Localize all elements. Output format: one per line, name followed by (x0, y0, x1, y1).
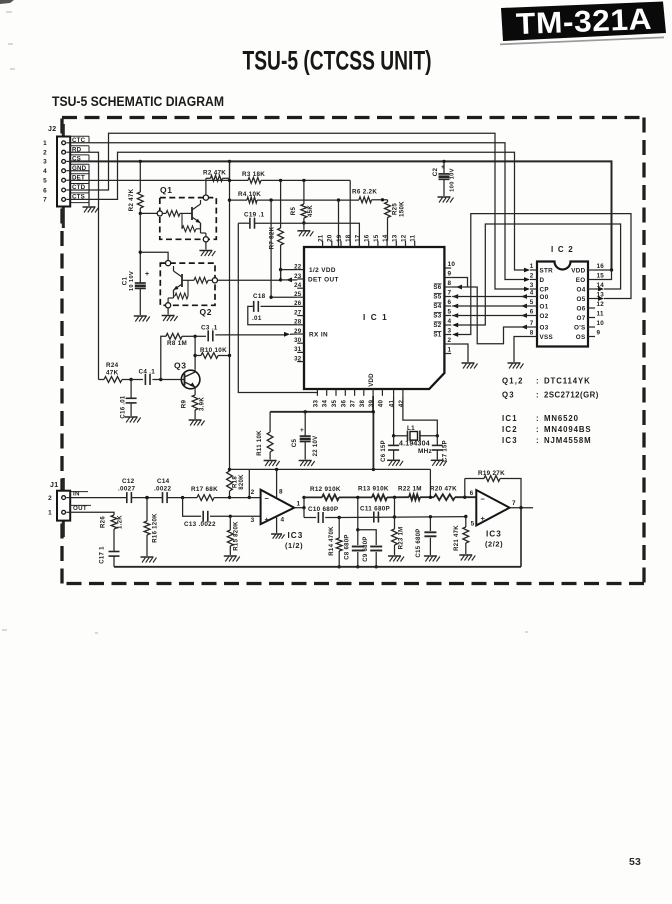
IC2 pin 13 O5 (588, 298, 595, 300)
bias rail (1/2 VDD) (230, 468, 431, 470)
IC1 pin 8 (444, 286, 451, 288)
svg-text:150K: 150K (399, 201, 406, 217)
svg-text:O3: O3 (540, 324, 549, 331)
IC1 pin 29 (297, 333, 304, 335)
svg-text:23: 23 (294, 273, 302, 280)
svg-text:21: 21 (318, 234, 325, 242)
wire IC2 O4 wrap to IC1 S2 (595, 288, 598, 290)
IC1 pin 39 (372, 389, 374, 396)
wire O0 to S5 (452, 294, 458, 299)
svg-text:2: 2 (530, 273, 534, 280)
junction +V/R2R3 riser (228, 160, 231, 163)
svg-text:VSS: VSS (540, 334, 554, 341)
Q2 emitter terminal (166, 303, 171, 308)
svg-text:DET OUT: DET OUT (308, 276, 339, 283)
ground at R21 (459, 554, 472, 556)
svg-text:1/2 VDD: 1/2 VDD (309, 267, 336, 274)
IC1 pin 31 (297, 351, 304, 353)
svg-text:7: 7 (512, 500, 516, 507)
op-amp IC3 (1/2) NJM4558M (261, 490, 295, 524)
svg-text:S5: S5 (433, 294, 441, 301)
IC1 pin 27 (297, 315, 304, 317)
wire R7 to IC1 pin22 (1/2 VDD) (279, 268, 282, 271)
Q2 input terminal (212, 278, 217, 283)
svg-text::: : (536, 377, 539, 386)
IC1 pin 24 (297, 287, 304, 289)
ground at Q2 (162, 315, 175, 317)
svg-text:TSU-5 (CTCSS UNIT): TSU-5 (CTCSS UNIT) (243, 46, 432, 76)
svg-text:RX IN: RX IN (309, 332, 328, 339)
ground at R5 (303, 223, 305, 230)
svg-text:STR: STR (540, 267, 554, 274)
IC1 pin 18 (349, 241, 351, 247)
svg-text:OUT: OUT (73, 505, 87, 512)
svg-text:(1/2): (1/2) (285, 541, 303, 550)
svg-text:R9: R9 (181, 399, 188, 408)
svg-text:C19 .1: C19 .1 (244, 212, 265, 219)
svg-text:VDD: VDD (369, 373, 375, 387)
svg-text:Q1,2: Q1,2 (502, 377, 524, 386)
svg-text:24: 24 (294, 282, 302, 289)
svg-text:EO: EO (576, 277, 586, 284)
svg-text:R2 47K: R2 47K (203, 170, 226, 177)
svg-text:5: 5 (448, 309, 452, 316)
svg-text:J2: J2 (48, 126, 56, 133)
IC1 pin 32 (297, 361, 304, 363)
wire node down to C1 / Q2 (139, 213, 141, 283)
svg-text:10: 10 (597, 320, 605, 327)
svg-text:15: 15 (597, 273, 605, 280)
svg-text:C8 680P: C8 680P (345, 534, 351, 559)
svg-text:C9 680P: C9 680P (363, 536, 369, 561)
Q2 internal shunt resistor (187, 280, 189, 296)
svg-text:J1: J1 (50, 482, 58, 489)
IC1 pin 37 (354, 389, 356, 396)
Q2 internal transistor (mirrored) (181, 274, 183, 287)
svg-text:R15 820K: R15 820K (234, 521, 240, 551)
svg-text:R21 47K: R21 47K (454, 525, 460, 551)
Q1 internal transistor (191, 207, 193, 220)
svg-text:MN4094BS: MN4094BS (544, 425, 592, 434)
svg-text::: : (536, 425, 539, 434)
svg-text:C1: C1 (122, 276, 129, 285)
junction +V/R2v (139, 160, 142, 163)
svg-text:47K: 47K (106, 370, 119, 377)
svg-text:100 10V: 100 10V (450, 168, 456, 192)
wire J1 OUT to R26 (71, 512, 115, 515)
wire bias riser R10 to rail (229, 356, 231, 470)
svg-text:−: − (265, 494, 270, 503)
svg-text:2: 2 (48, 495, 52, 502)
junction VDD net at IC2 (610, 268, 613, 271)
svg-text:8: 8 (448, 280, 452, 287)
svg-text:10: 10 (448, 261, 456, 268)
ground at C1 (134, 315, 147, 317)
wire IC2 pin15 EO tied to VDD (595, 270, 612, 280)
resistor R7 82K (279, 179, 282, 182)
wire riser to IC1 pin19 (338, 200, 340, 247)
svg-text:O0: O0 (540, 294, 549, 301)
model header box TM-321A (501, 2, 666, 42)
svg-text:12: 12 (597, 301, 605, 308)
svg-text:O'S: O'S (574, 324, 586, 331)
svg-text:1: 1 (297, 500, 301, 507)
svg-text:R16 120K: R16 120K (153, 513, 159, 543)
IC1 pin 2 (444, 343, 451, 345)
IC2 pin 1 STR (530, 269, 537, 271)
svg-text:R4 10K: R4 10K (238, 191, 261, 198)
IC1 pin 4 (444, 324, 451, 326)
svg-text:TM-321A: TM-321A (515, 3, 652, 41)
ground at C7 (431, 459, 444, 461)
wire mid row to IC3-2 +input (339, 516, 467, 519)
IC1 pin 16 (368, 241, 370, 247)
svg-text:R23 1M: R23 1M (399, 527, 405, 550)
svg-text:1.2K: 1.2K (118, 515, 124, 529)
svg-text:14: 14 (382, 234, 389, 242)
ground at IC1 pin2 (462, 362, 475, 364)
svg-text:C2: C2 (432, 167, 439, 176)
svg-text:6: 6 (43, 187, 47, 194)
svg-text:12: 12 (401, 234, 408, 242)
wire CTS net J2-7 to IC2 STR (71, 152, 525, 270)
ground at R15 (224, 555, 237, 557)
svg-text:R14 470K: R14 470K (329, 526, 335, 556)
svg-text:16: 16 (364, 234, 371, 242)
wire IC3-2 output (510, 507, 533, 509)
wire IC3-1 output node (294, 507, 304, 509)
svg-text:C14: C14 (157, 478, 170, 485)
IC2 pin 16 VDD (588, 269, 595, 271)
ground at C15 (424, 555, 437, 557)
IC1 pin 5 (444, 315, 451, 317)
IC1 pin 21 (322, 241, 324, 247)
wire IC1 pin42 to crystal right (403, 396, 437, 436)
svg-text:4.194304: 4.194304 (399, 441, 430, 448)
svg-text:45K: 45K (307, 205, 314, 217)
ground at R11 (264, 460, 277, 462)
svg-text:VDD: VDD (571, 267, 585, 274)
svg-text:C12: C12 (122, 478, 135, 485)
IC1 pin 25 (297, 296, 304, 298)
IC2 pin 2 D (530, 279, 537, 281)
svg-text:3: 3 (43, 159, 47, 166)
svg-text:39: 39 (368, 400, 375, 408)
svg-text:C13 .0022: C13 .0022 (184, 521, 216, 528)
wire IC1 pin41 to crystal (393, 396, 395, 436)
svg-text:34: 34 (322, 400, 329, 408)
wire Q1 collector up to R2h (205, 178, 207, 195)
svg-text:37: 37 (350, 400, 357, 408)
svg-text:C3 .1: C3 .1 (201, 325, 218, 332)
svg-text:2: 2 (251, 489, 255, 496)
svg-text:17: 17 (354, 234, 361, 242)
svg-text:R17 68K: R17 68K (191, 486, 218, 493)
IC1 pin 6 (444, 305, 451, 307)
wire C4 to Q3 base (161, 379, 182, 381)
IC2 pin 8 VSS (530, 336, 537, 338)
ground at IC3 pin4 (271, 533, 282, 535)
svg-text:20: 20 (327, 234, 334, 242)
svg-text:IC3: IC3 (288, 531, 304, 540)
ground at C6 (387, 459, 400, 461)
IC1 pin 7 (444, 296, 451, 298)
svg-text:32: 32 (294, 355, 302, 362)
svg-text:IC2: IC2 (502, 425, 518, 434)
svg-text:18: 18 (345, 234, 352, 242)
svg-text:O7: O7 (577, 315, 586, 322)
IC1 pin 33 (316, 389, 318, 396)
IC1 pin 12 (405, 241, 407, 247)
svg-text:R24: R24 (106, 362, 119, 369)
svg-text:I C 2: I C 2 (551, 245, 574, 254)
wire DET net J2-5 (through R3) to IC1 pin18 (71, 179, 249, 181)
svg-text:Q2: Q2 (200, 307, 213, 317)
audio return line (114, 566, 521, 568)
IC1 pin 13 (395, 241, 397, 247)
svg-text:R18: R18 (233, 476, 239, 488)
svg-text:R22 1M: R22 1M (398, 486, 422, 493)
svg-text:IC3: IC3 (502, 436, 518, 445)
capacitor C2 100/10V electrolytic (442, 160, 445, 163)
vertical riser x=229.5 (+V to R10) (229, 161, 231, 355)
IC2 pin 7 O3 (530, 326, 537, 328)
wire O2 to S3 (452, 313, 458, 318)
svg-text:8: 8 (279, 489, 283, 496)
wire O3 to S6 (crossover) (456, 285, 462, 290)
IC2 pin 12 O6 (588, 307, 595, 309)
wire DET OUT from IC1 pin23 (279, 278, 282, 281)
svg-text:36: 36 (340, 400, 347, 408)
svg-text:.0022: .0022 (154, 486, 171, 493)
wire Q2 emitter to ground (167, 308, 169, 315)
ground at IC2 VSS (508, 362, 521, 364)
svg-text:+: + (145, 271, 149, 278)
IC1 pin 3 (444, 334, 451, 336)
svg-text:CP: CP (540, 286, 549, 293)
svg-text:R11 10K: R11 10K (257, 430, 263, 456)
svg-text:C17 1: C17 1 (100, 546, 106, 564)
wire Q3 collector riser (194, 336, 196, 369)
svg-text:30: 30 (294, 337, 302, 344)
svg-text:13: 13 (391, 234, 398, 242)
svg-text:C5: C5 (291, 438, 298, 447)
svg-text:3: 3 (448, 328, 452, 335)
svg-text:19: 19 (336, 234, 343, 242)
svg-text:S1: S1 (433, 332, 441, 339)
svg-text:C10 680P: C10 680P (308, 506, 338, 513)
wire RD net J2-2 down-left riser (71, 152, 99, 379)
Q2 collector terminal (166, 261, 171, 266)
IC1 pin 42 (402, 389, 404, 396)
svg-text:IC3: IC3 (486, 530, 502, 539)
svg-text:53: 53 (629, 856, 641, 868)
wire Q1 emitter to ground (205, 242, 207, 250)
IC1 pin 30 (297, 342, 304, 344)
svg-text:16: 16 (597, 263, 605, 270)
svg-text:7: 7 (530, 320, 534, 327)
svg-text:7: 7 (43, 197, 47, 204)
svg-text:S6: S6 (433, 284, 441, 291)
svg-text:+: + (300, 427, 304, 434)
svg-text:5: 5 (43, 178, 47, 185)
IC1 pin 20 (331, 241, 333, 247)
svg-text:R7 82K: R7 82K (269, 226, 276, 249)
IC1 pin 41 (393, 389, 395, 396)
wire CTC net J2-1 to IC2 D (71, 143, 525, 280)
svg-text:11: 11 (597, 311, 604, 318)
Q1 collector terminal (203, 195, 208, 200)
svg-text:5: 5 (530, 299, 534, 306)
svg-text:C6 15P: C6 15P (381, 440, 387, 462)
svg-text:3: 3 (530, 282, 534, 289)
IC1 pin 35 (335, 389, 337, 396)
svg-text:R12 910K: R12 910K (310, 486, 341, 493)
IC1 pin 26 (297, 305, 304, 307)
IC1 pin 23 (297, 278, 304, 280)
wire IC2 pin16 VDD (595, 269, 612, 271)
Q2 internal base resistor (208, 279, 212, 281)
svg-text:9: 9 (448, 271, 452, 278)
IC1 pin 22 (297, 269, 304, 271)
svg-text:C4 .1: C4 .1 (139, 369, 156, 376)
svg-text:42: 42 (398, 400, 405, 408)
wire Q1 input node (140, 212, 157, 214)
svg-text:4: 4 (448, 318, 452, 325)
wire rail tap to R17/pin2 node (248, 469, 250, 497)
svg-text:2SC2712(GR): 2SC2712(GR) (544, 391, 599, 400)
svg-text:+: + (441, 164, 445, 171)
svg-text:OS: OS (576, 334, 586, 341)
svg-text:1: 1 (530, 263, 534, 270)
svg-text:4: 4 (530, 290, 534, 297)
IC1 pin 14 (386, 241, 388, 247)
svg-text:33: 33 (312, 400, 319, 408)
svg-text:1: 1 (48, 510, 52, 517)
svg-text:NJM4558M: NJM4558M (544, 436, 592, 445)
wire output to return line (520, 508, 522, 567)
wire GND pin J2-4 (71, 171, 90, 206)
ground at C5 (299, 460, 312, 462)
svg-text:27: 27 (294, 309, 302, 316)
scan artifact under header box (500, 37, 664, 46)
svg-text:DTC114YK: DTC114YK (544, 377, 591, 386)
wire IC2 VSS to ground (514, 337, 530, 363)
svg-text:38: 38 (359, 400, 366, 408)
svg-text:R5: R5 (290, 206, 297, 215)
svg-text:Q1: Q1 (160, 185, 173, 195)
svg-text:.0027: .0027 (118, 486, 135, 493)
svg-text:15: 15 (373, 234, 380, 242)
svg-text:6: 6 (530, 309, 534, 316)
Q1 input terminal (157, 211, 162, 216)
svg-text:R20 47K: R20 47K (430, 486, 457, 493)
svg-text:7: 7 (448, 290, 452, 297)
Q1 internal base resistor (162, 212, 166, 214)
svg-text:1: 1 (43, 140, 47, 147)
svg-text:O4: O4 (577, 286, 586, 293)
wire J1 IN to filter (71, 497, 127, 499)
svg-text:10 10V: 10 10V (129, 271, 135, 291)
svg-text:−: − (481, 495, 486, 504)
wire O1 to S4 (452, 304, 458, 309)
ground at J2 pin4 (83, 206, 96, 208)
IC2 pin 11 O7 (588, 317, 595, 319)
Q1 internal shunt resistor (181, 213, 183, 228)
svg-text:5: 5 (471, 521, 475, 528)
svg-text:C7 15P: C7 15P (443, 440, 449, 462)
IC2 pin 4 O0 (530, 296, 537, 298)
svg-text:4: 4 (43, 168, 47, 175)
svg-text:1: 1 (448, 347, 452, 354)
IC2 pin 6 O2 (530, 315, 537, 317)
IC1 pin 1 (444, 353, 451, 355)
corner scan mark (0, 0, 14, 4)
IC1 pin 34 (326, 389, 328, 396)
op-amp IC1 MN6520 (44-pin LSI) (304, 247, 444, 389)
svg-text:6: 6 (448, 299, 452, 306)
ground at C16 (125, 416, 138, 418)
svg-text:C15 680P: C15 680P (416, 528, 422, 557)
IC1 pin 15 (377, 241, 379, 247)
wire rail to stage2 node (429, 469, 431, 497)
ground at R9 (189, 419, 202, 421)
svg-text:R8 1M: R8 1M (167, 340, 187, 347)
wire CS / +V line J2-3 to IC2 VDD (71, 161, 612, 270)
svg-text:+: + (481, 514, 486, 523)
wire riser to IC1 pin25 (270, 200, 272, 297)
svg-text:MHz: MHz (418, 448, 433, 455)
svg-text:40: 40 (377, 400, 384, 408)
svg-text:R26: R26 (101, 516, 107, 528)
wire C19 left leg down to IC1 pin33 (238, 223, 317, 392)
svg-text:9: 9 (597, 330, 601, 337)
wire C13 node to IC3 pin3 (230, 515, 263, 517)
svg-text:D: D (540, 277, 545, 284)
svg-text:8: 8 (530, 330, 534, 337)
svg-text:R6 2.2K: R6 2.2K (352, 189, 377, 196)
IC1 pin 28 (297, 324, 304, 326)
wire RX IN to IC1 pin29 (215, 334, 284, 336)
wire CTD net J2-6 to IC2 CP (71, 133, 525, 289)
svg-text:3: 3 (251, 517, 255, 524)
svg-text:R13 910K: R13 910K (358, 486, 389, 493)
svg-text:2: 2 (43, 150, 47, 157)
IC1 pin 36 (344, 389, 346, 396)
Q1 emitter terminal (203, 237, 208, 242)
svg-text:.01: .01 (252, 315, 262, 322)
IC2 pin 14 O4 (588, 288, 595, 290)
IC1 pin 19 (340, 241, 342, 247)
ground at Q1 (199, 250, 212, 252)
svg-text:O2: O2 (540, 313, 549, 320)
svg-text::: : (536, 436, 539, 445)
svg-text:O6: O6 (577, 305, 586, 312)
svg-text::: : (536, 391, 539, 400)
svg-text:R25: R25 (392, 203, 399, 215)
IC2 pin 10 O'S (588, 326, 595, 328)
svg-text:2: 2 (448, 337, 452, 344)
op-amp IC3 (2/2) NJM4558M (476, 490, 509, 525)
svg-text:11: 11 (410, 234, 417, 241)
ground at R16 (141, 556, 154, 558)
svg-text:R2 47K: R2 47K (128, 188, 135, 211)
svg-text:I C 1: I C 1 (363, 313, 388, 322)
IC1 pin 9 (444, 277, 451, 279)
svg-text:+: + (265, 515, 270, 524)
wire to Q2 collector (140, 252, 168, 260)
wire DET OUT line to Q2 input (218, 279, 281, 281)
